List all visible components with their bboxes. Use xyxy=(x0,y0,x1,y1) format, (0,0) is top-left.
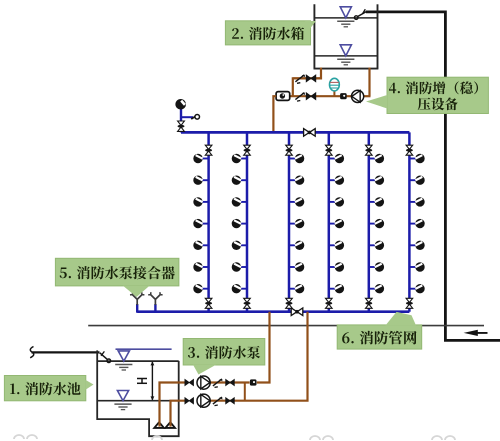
sprinkler head R1-5 xyxy=(193,241,208,250)
tank lower water level symbol xyxy=(337,45,354,65)
flow direction arrow xyxy=(464,330,488,336)
fire pool shell xyxy=(97,350,179,436)
faint cropped watermark remnants at bottom edge xyxy=(14,435,455,440)
fire pump adapter Y2 xyxy=(148,292,162,313)
sprinkler head R1-4 xyxy=(193,219,208,228)
pipe: jockey pump outlet xyxy=(364,95,371,97)
sprinkler head R2-3 xyxy=(232,197,247,206)
riser pipe 4 xyxy=(328,132,331,311)
sprinkler head R5-2 xyxy=(369,176,384,185)
pipe break symbol xyxy=(30,347,34,358)
label 1 fire pool xyxy=(4,376,93,401)
sprinkler head R3-3 xyxy=(289,197,304,206)
fire water tank shell xyxy=(314,4,379,68)
depth symbol H xyxy=(137,379,147,384)
top distribution main xyxy=(181,131,409,134)
discharge pipe pump 2 xyxy=(210,312,307,401)
check valve on stabilizer line xyxy=(295,93,304,102)
valve at top of riser 4 xyxy=(325,145,332,155)
check valve on pump 2 discharge xyxy=(213,397,222,406)
valve at bottom of riser 3 xyxy=(286,298,293,308)
sprinkler head R5-4 xyxy=(369,219,384,228)
valve at bottom of riser 2 xyxy=(244,298,251,308)
flow switch Q device xyxy=(276,92,290,101)
pool top water surface line xyxy=(116,348,172,350)
sprinkler head R6-5 xyxy=(409,241,424,250)
sprinkler head R4-2 xyxy=(329,176,344,185)
sprinkler head R3-1 xyxy=(289,154,304,163)
valve at top of riser 3 xyxy=(286,145,293,155)
sprinkler head R5-5 xyxy=(369,241,384,250)
sprinkler head R4-5 xyxy=(329,241,344,250)
gate valve on pump 1 discharge xyxy=(226,379,235,385)
sprinkler head R3-4 xyxy=(289,219,304,228)
sprinkler head R4-3 xyxy=(329,197,344,206)
label 3 fire pumps xyxy=(183,339,265,375)
pool float valve xyxy=(100,351,111,362)
sprinkler head R6-7 xyxy=(409,284,424,293)
wet alarm check valve xyxy=(178,121,185,131)
sprinkler head R4-4 xyxy=(329,219,344,228)
sprinkler head R1-7 xyxy=(193,284,208,293)
suction pipe pump 2 xyxy=(171,401,185,427)
alarm valve riser xyxy=(180,109,182,132)
riser pipe 2 xyxy=(246,132,249,311)
pipe: flow switch to sprinkler top main riser xyxy=(273,96,276,131)
sprinkler head R6-1 xyxy=(409,154,424,163)
sprinkler head R1-6 xyxy=(193,262,208,271)
sprinkler head R1-3 xyxy=(193,197,208,206)
sprinkler head R2-7 xyxy=(232,284,247,293)
tank upper water level symbol xyxy=(337,7,354,27)
bottom distribution main xyxy=(137,310,409,313)
sprinkler head R5-3 xyxy=(369,197,384,206)
label 6 pipe network xyxy=(337,312,422,349)
valve at top of riser 1 xyxy=(205,145,212,155)
sprinkler head R5-7 xyxy=(369,284,384,293)
check valve on pump 1 discharge xyxy=(213,379,222,388)
sprinkler head R4-1 xyxy=(329,154,344,163)
sprinkler head R2-1 xyxy=(232,154,247,163)
label 4 pressure equipment xyxy=(366,77,488,113)
gate valve on pump 2 discharge xyxy=(226,398,235,404)
sprinkler head R6-6 xyxy=(409,262,424,271)
sprinkler head R3-6 xyxy=(289,262,304,271)
steel feed pipe from tank to standpipe (top right L-shape) xyxy=(366,12,500,341)
valve at bottom of riser 5 xyxy=(365,298,372,308)
riser pipe 6 xyxy=(408,132,411,311)
valve at top of riser 5 xyxy=(365,145,372,155)
pipe: tank left outlet down and to filling branch xyxy=(293,68,321,97)
sprinkler head R1-1 xyxy=(193,154,208,163)
gate valve on pump 2 suction xyxy=(185,398,194,404)
fire pump adapter Y1 xyxy=(130,292,144,313)
sprinkler head R2-5 xyxy=(232,241,247,250)
water depth dimension line xyxy=(151,361,155,400)
foot valve 1 xyxy=(154,422,164,428)
sprinkler head R6-4 xyxy=(409,219,424,228)
riser pipe 5 xyxy=(368,132,371,311)
fire pump 1 xyxy=(197,376,210,389)
sprinkler head R3-5 xyxy=(289,241,304,250)
ground/reference line xyxy=(88,325,484,327)
gate valve on stabilizer line xyxy=(306,93,316,100)
lower branch pipe (stabilizer line) xyxy=(290,95,363,97)
sprinkler head R4-6 xyxy=(329,262,344,271)
sprinkler head R5-6 xyxy=(369,262,384,271)
sprinkler head R1-2 xyxy=(193,176,208,185)
riser pipe 3 xyxy=(288,132,291,311)
check valve on upper tank branch xyxy=(295,75,304,84)
pool lower water level symbol xyxy=(114,391,131,410)
fire pump 2 xyxy=(197,394,210,407)
label 2 fire water tank xyxy=(225,21,316,45)
small meter valve before jockey pump xyxy=(340,93,347,99)
sprinkler head R2-4 xyxy=(232,219,247,228)
sprinkler head R2-2 xyxy=(232,176,247,185)
pressure vessel (stabilizing tank) xyxy=(330,78,340,96)
gate valve on pump 1 suction xyxy=(185,379,194,385)
gate valve on upper tank branch xyxy=(306,75,316,82)
tank float valve xyxy=(354,9,366,19)
valve at bottom of riser 4 xyxy=(325,298,332,308)
sprinkler head R6-3 xyxy=(409,197,424,206)
riser pipe 1 xyxy=(207,132,210,311)
water motor alarm bell xyxy=(175,99,186,110)
pool upper water level symbol xyxy=(115,351,132,370)
jockey (pressure stabilizing) pump xyxy=(352,90,364,102)
cross connection between pump discharges xyxy=(244,383,246,401)
valve at bottom of riser 6 xyxy=(406,298,413,308)
gate valve on top main xyxy=(304,129,316,137)
sprinkler head R2-6 xyxy=(232,262,247,271)
label 5 pump adapter xyxy=(55,258,178,297)
upper branch pipe xyxy=(293,77,321,79)
pool water line 2 xyxy=(97,400,179,402)
butterfly valve at pump 1 riser xyxy=(250,379,257,385)
foot valve 2 xyxy=(165,422,175,428)
gate valve on bottom main xyxy=(291,308,303,316)
pipe: jockey/stabilizer discharge up to tank right outlet xyxy=(368,68,370,97)
discharge pipe pump 1 xyxy=(210,312,269,383)
sprinkler head R3-7 xyxy=(289,284,304,293)
sprinkler head R5-1 xyxy=(369,154,384,163)
pressure gauge branch xyxy=(181,115,200,120)
valve at top of riser 6 xyxy=(406,145,413,155)
valve at top of riser 2 xyxy=(244,145,251,155)
valve at bottom of riser 1 xyxy=(205,298,212,308)
pool water line 1 xyxy=(97,360,179,362)
sprinkler head R3-2 xyxy=(289,176,304,185)
city water inlet pipe xyxy=(32,351,100,353)
suction pipe pump 1 xyxy=(160,383,185,427)
sprinkler head R4-7 xyxy=(329,284,344,293)
sprinkler head R6-2 xyxy=(409,176,424,185)
